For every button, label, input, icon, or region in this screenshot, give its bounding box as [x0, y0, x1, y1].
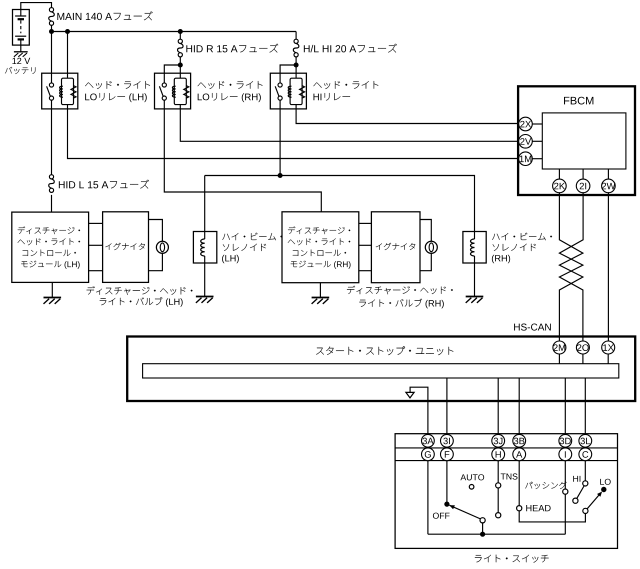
- wire twisted pair CAN-H: [559, 193, 583, 342]
- label solenoid RH: [492, 233, 552, 264]
- node LO contact: [601, 487, 606, 492]
- label 12V battery: [5, 58, 35, 74]
- label H/L HI fuse: [304, 44, 397, 53]
- wire: [89, 244, 103, 246]
- node: [278, 173, 283, 178]
- ground: [466, 297, 484, 303]
- wire HI relay coil to 2X: [296, 105, 519, 124]
- ground: [44, 298, 62, 304]
- wire: [584, 378, 586, 435]
- wire: [89, 270, 103, 272]
- wire: [564, 494, 566, 534]
- wire: [204, 263, 206, 296]
- switch blade LO: [587, 492, 602, 509]
- battery 12V: [13, 10, 30, 52]
- fuse HID R 15A: [178, 39, 184, 57]
- pin A: [513, 448, 526, 461]
- wire: [164, 65, 180, 83]
- label igniter LH: [105, 243, 144, 250]
- label OFF: [433, 513, 450, 519]
- wire: [497, 378, 499, 435]
- module discharge control (LH): [12, 212, 89, 282]
- wire H to TNS: [497, 461, 499, 483]
- wire I to passing: [564, 461, 566, 490]
- wire A to HEAD: [518, 461, 520, 506]
- wire: [21, 3, 52, 10]
- wire: [204, 176, 206, 232]
- wire: [359, 222, 372, 224]
- wire LH relay switch to HID L fuse: [51, 100, 53, 175]
- contact HI bottom: [573, 498, 578, 503]
- label FBCM: [564, 97, 593, 105]
- ground: [14, 52, 28, 57]
- FBCM box: [518, 86, 635, 195]
- wire: [532, 123, 542, 125]
- label MAIN 140A fuse: [57, 11, 152, 20]
- wire: [474, 263, 476, 296]
- contact: [480, 518, 485, 523]
- label AUTO: [460, 474, 484, 480]
- label light switch: [475, 555, 549, 563]
- wire: [558, 354, 560, 364]
- solenoid high-beam (RH): [463, 232, 486, 264]
- wire: [67, 32, 69, 79]
- node: [65, 29, 70, 34]
- wire HI relay switch down: [279, 100, 281, 175]
- igniter (RH): [371, 212, 420, 283]
- wire twisted pair CAN-L: [559, 193, 583, 342]
- pin H: [492, 448, 505, 461]
- wire: [280, 65, 296, 83]
- wire: [149, 220, 163, 242]
- label solenoid LH: [222, 233, 282, 264]
- pin 1M: [519, 152, 533, 166]
- pin 2X: [519, 117, 533, 131]
- wire bottom bus: [428, 533, 566, 535]
- wire: [295, 32, 297, 40]
- label bulb RH: [347, 286, 453, 309]
- connector row line: [395, 460, 617, 462]
- solenoid high-beam (LH): [193, 232, 216, 264]
- fuse H/L HI 20A: [293, 39, 299, 57]
- pin 2I: [576, 179, 590, 193]
- wire: [410, 387, 428, 434]
- contact AUTO: [469, 485, 474, 490]
- wire: [51, 282, 53, 297]
- label bulb LH: [87, 286, 193, 306]
- relay headlight LO (LH): [42, 73, 78, 109]
- pin C: [579, 448, 592, 461]
- relay headlight HI: [270, 73, 306, 109]
- wire: [482, 523, 484, 534]
- wire 2W to 1X: [607, 193, 609, 342]
- pin 2M: [553, 341, 566, 354]
- node: [49, 29, 54, 34]
- wire: [497, 488, 499, 513]
- pin G: [422, 448, 435, 461]
- pin F: [441, 448, 454, 461]
- fuse HID L 15A: [49, 175, 55, 193]
- wire: [89, 222, 103, 224]
- wire: [359, 244, 372, 246]
- off-page arrow: [406, 392, 414, 398]
- wire: [446, 378, 448, 435]
- pin 2K: [553, 179, 567, 193]
- label module RH: [288, 227, 351, 269]
- label TNS: [501, 473, 518, 479]
- pin I: [559, 448, 572, 461]
- wire: [607, 169, 609, 179]
- relay headlight LO (RH): [155, 73, 191, 109]
- wire: [51, 195, 53, 212]
- wire C to HI: [584, 461, 586, 481]
- label HID L fuse: [59, 180, 149, 189]
- wire: [179, 65, 181, 78]
- wire RH relay switch to module RH: [164, 100, 321, 212]
- wire: [179, 32, 181, 40]
- connector row line: [395, 447, 617, 449]
- lamp discharge bulb (RH): [425, 241, 437, 253]
- wire top bus: [52, 31, 297, 33]
- contact LO pivot: [583, 508, 588, 513]
- contact passing: [563, 489, 568, 494]
- switch blade OFF: [449, 505, 480, 519]
- wire: [564, 378, 566, 435]
- node: [480, 532, 485, 537]
- contact HEAD: [517, 506, 522, 511]
- pin 3J: [492, 434, 505, 447]
- igniter (LH): [103, 212, 149, 283]
- wire: [532, 158, 542, 160]
- node OFF contact: [444, 502, 449, 507]
- label LO: [600, 479, 610, 485]
- label HI: [573, 476, 580, 482]
- wire: [420, 253, 431, 270]
- wire: [359, 270, 372, 272]
- wire: [51, 32, 53, 83]
- label relay LO LH: [85, 81, 150, 102]
- wire RH relay coil to 2V: [180, 105, 518, 142]
- contact TNS top: [496, 483, 501, 488]
- wire: [532, 140, 542, 142]
- module discharge control (RH): [282, 212, 359, 283]
- pin 2O: [576, 341, 589, 354]
- pin 3I: [441, 434, 454, 447]
- wire: [149, 253, 163, 270]
- wire: [51, 25, 53, 31]
- wire G column: [427, 461, 429, 535]
- ground: [312, 298, 330, 304]
- label start-stop unit: [316, 346, 453, 355]
- node: [178, 63, 183, 68]
- pin 3L: [579, 434, 592, 447]
- wire: [295, 57, 297, 65]
- wire: [295, 65, 297, 78]
- wire HEAD to LO pivot: [519, 511, 585, 522]
- wire: [558, 169, 560, 179]
- wire: [179, 57, 181, 65]
- light switch box: [395, 434, 617, 549]
- label HID R fuse: [186, 44, 278, 53]
- wire: [607, 354, 609, 364]
- label relay HI: [313, 81, 378, 100]
- lamp discharge bulb (LH): [156, 241, 168, 253]
- contact TNS bottom: [496, 513, 501, 518]
- ground: [196, 297, 214, 303]
- wire: [319, 283, 321, 298]
- node: [178, 29, 183, 34]
- label HEAD: [526, 505, 550, 511]
- switch blade HI: [577, 486, 584, 498]
- wire F to OFF: [446, 461, 448, 505]
- pin 1X: [602, 341, 615, 354]
- wire: [582, 169, 584, 179]
- fuse MAIN 140A: [49, 8, 55, 26]
- label passing: [525, 482, 566, 489]
- start-stop unit inner box: [143, 364, 619, 378]
- pin 2W: [602, 179, 616, 193]
- pin 3A: [422, 434, 435, 447]
- wire: [582, 354, 584, 364]
- wire LH relay coil to 1M: [68, 105, 519, 159]
- pin 3D: [559, 434, 572, 447]
- label module LH: [18, 227, 80, 269]
- label relay LO RH: [198, 81, 263, 102]
- FBCM inner box: [542, 113, 626, 169]
- label HS-CAN: [514, 324, 551, 331]
- wire high-beam solenoid feed: [205, 176, 475, 232]
- node: [294, 63, 299, 68]
- label igniter RH: [376, 243, 415, 250]
- pin 2V: [519, 135, 533, 149]
- wire: [518, 378, 520, 435]
- wire: [420, 220, 431, 242]
- pin 3B: [513, 434, 526, 447]
- contact HI top: [583, 481, 588, 486]
- start-stop unit box: [127, 337, 635, 402]
